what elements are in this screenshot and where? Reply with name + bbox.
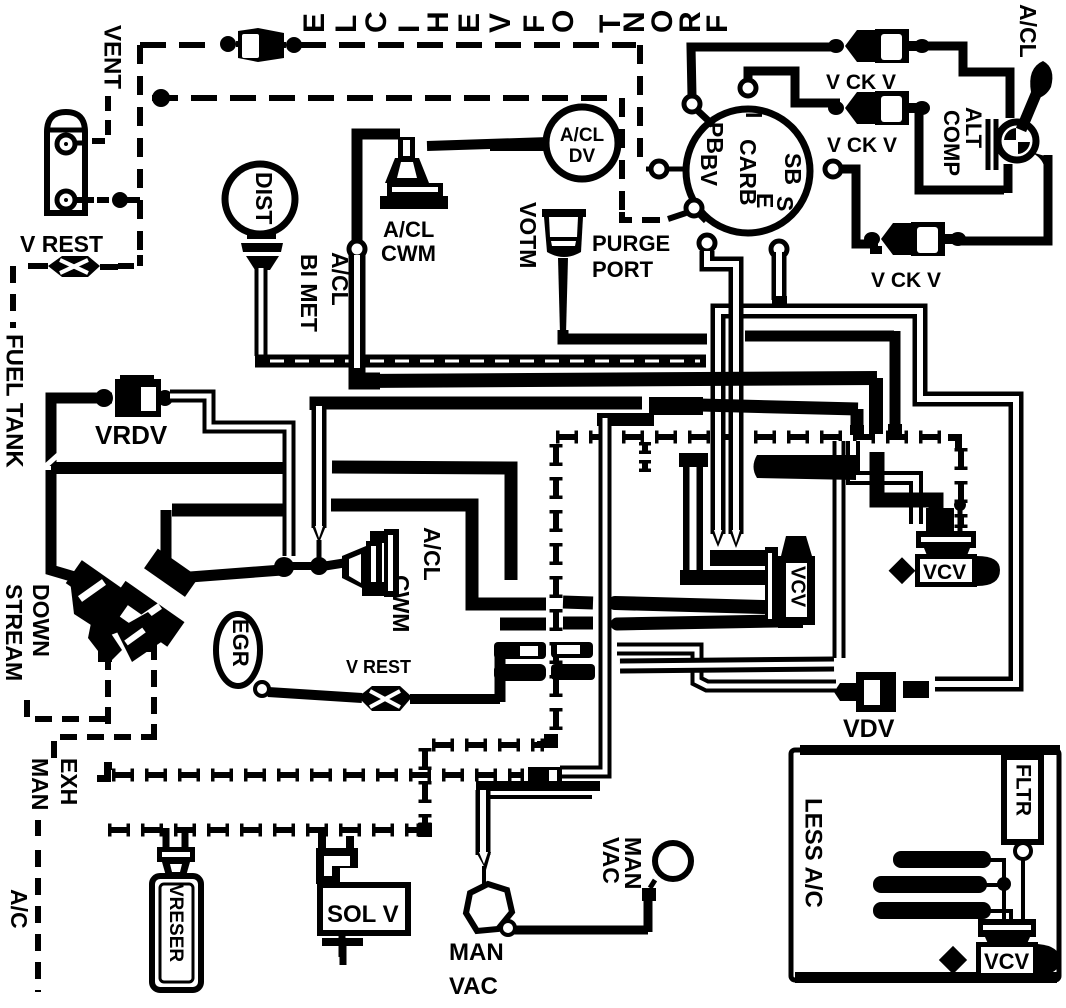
svg-text:E: E bbox=[298, 13, 331, 33]
svg-text:VENT: VENT bbox=[98, 25, 125, 89]
svg-text:MAN: MAN bbox=[449, 939, 504, 966]
svg-text:VCV: VCV bbox=[786, 566, 808, 608]
svg-text:EXH: EXH bbox=[56, 758, 82, 805]
svg-text:VAC: VAC bbox=[449, 973, 498, 1000]
svg-text:CWM: CWM bbox=[381, 241, 436, 266]
svg-text:A/CL: A/CL bbox=[1015, 4, 1041, 58]
svg-text:BI MET: BI MET bbox=[296, 254, 322, 332]
svg-text:VCV: VCV bbox=[984, 949, 1030, 974]
svg-text:V: V bbox=[484, 13, 517, 33]
svg-text:VDV: VDV bbox=[843, 715, 895, 743]
svg-text:PORT: PORT bbox=[592, 257, 654, 282]
svg-text:V REST: V REST bbox=[346, 657, 411, 677]
svg-text:COMP: COMP bbox=[939, 110, 964, 176]
svg-text:VRDV: VRDV bbox=[95, 420, 168, 450]
svg-text:V CK V: V CK V bbox=[826, 71, 896, 94]
svg-text:H: H bbox=[422, 11, 455, 33]
svg-text:O: O bbox=[547, 10, 580, 33]
svg-text:V CK V: V CK V bbox=[871, 269, 941, 292]
svg-text:VCV: VCV bbox=[923, 561, 966, 584]
svg-text:C: C bbox=[360, 11, 393, 33]
svg-text:CWM: CWM bbox=[388, 575, 414, 632]
svg-text:F: F bbox=[701, 15, 734, 33]
svg-text:A/C: A/C bbox=[6, 889, 32, 929]
svg-text:I: I bbox=[741, 112, 767, 118]
svg-text:FLTR: FLTR bbox=[1012, 764, 1035, 816]
svg-text:E: E bbox=[453, 13, 486, 33]
svg-text:E: E bbox=[752, 193, 778, 208]
svg-text:STREAM: STREAM bbox=[1, 584, 27, 681]
svg-text:V CK V: V CK V bbox=[827, 134, 897, 157]
svg-text:DV: DV bbox=[569, 146, 596, 167]
svg-text:DIST: DIST bbox=[251, 172, 277, 224]
svg-text:MAN: MAN bbox=[27, 758, 53, 810]
svg-text:FUEL TANK: FUEL TANK bbox=[0, 334, 27, 468]
svg-text:A/CL: A/CL bbox=[560, 125, 605, 146]
svg-text:DOWN: DOWN bbox=[28, 584, 54, 657]
svg-text:L: L bbox=[330, 15, 363, 33]
svg-text:LESS A/C: LESS A/C bbox=[799, 798, 826, 908]
svg-text:A/CL: A/CL bbox=[419, 527, 445, 581]
svg-text:SB: SB bbox=[780, 153, 806, 185]
svg-text:PURGE: PURGE bbox=[592, 231, 670, 256]
svg-text:BV: BV bbox=[696, 154, 722, 187]
svg-text:PB: PB bbox=[702, 122, 728, 154]
svg-text:EGR: EGR bbox=[228, 619, 253, 667]
svg-text:V REST: V REST bbox=[20, 231, 103, 257]
svg-text:VOTM: VOTM bbox=[515, 202, 541, 268]
svg-text:VAC: VAC bbox=[598, 837, 624, 884]
svg-text:SOL V: SOL V bbox=[327, 901, 399, 928]
svg-text:A/CL: A/CL bbox=[383, 217, 434, 242]
svg-text:VRESER: VRESER bbox=[165, 884, 186, 962]
